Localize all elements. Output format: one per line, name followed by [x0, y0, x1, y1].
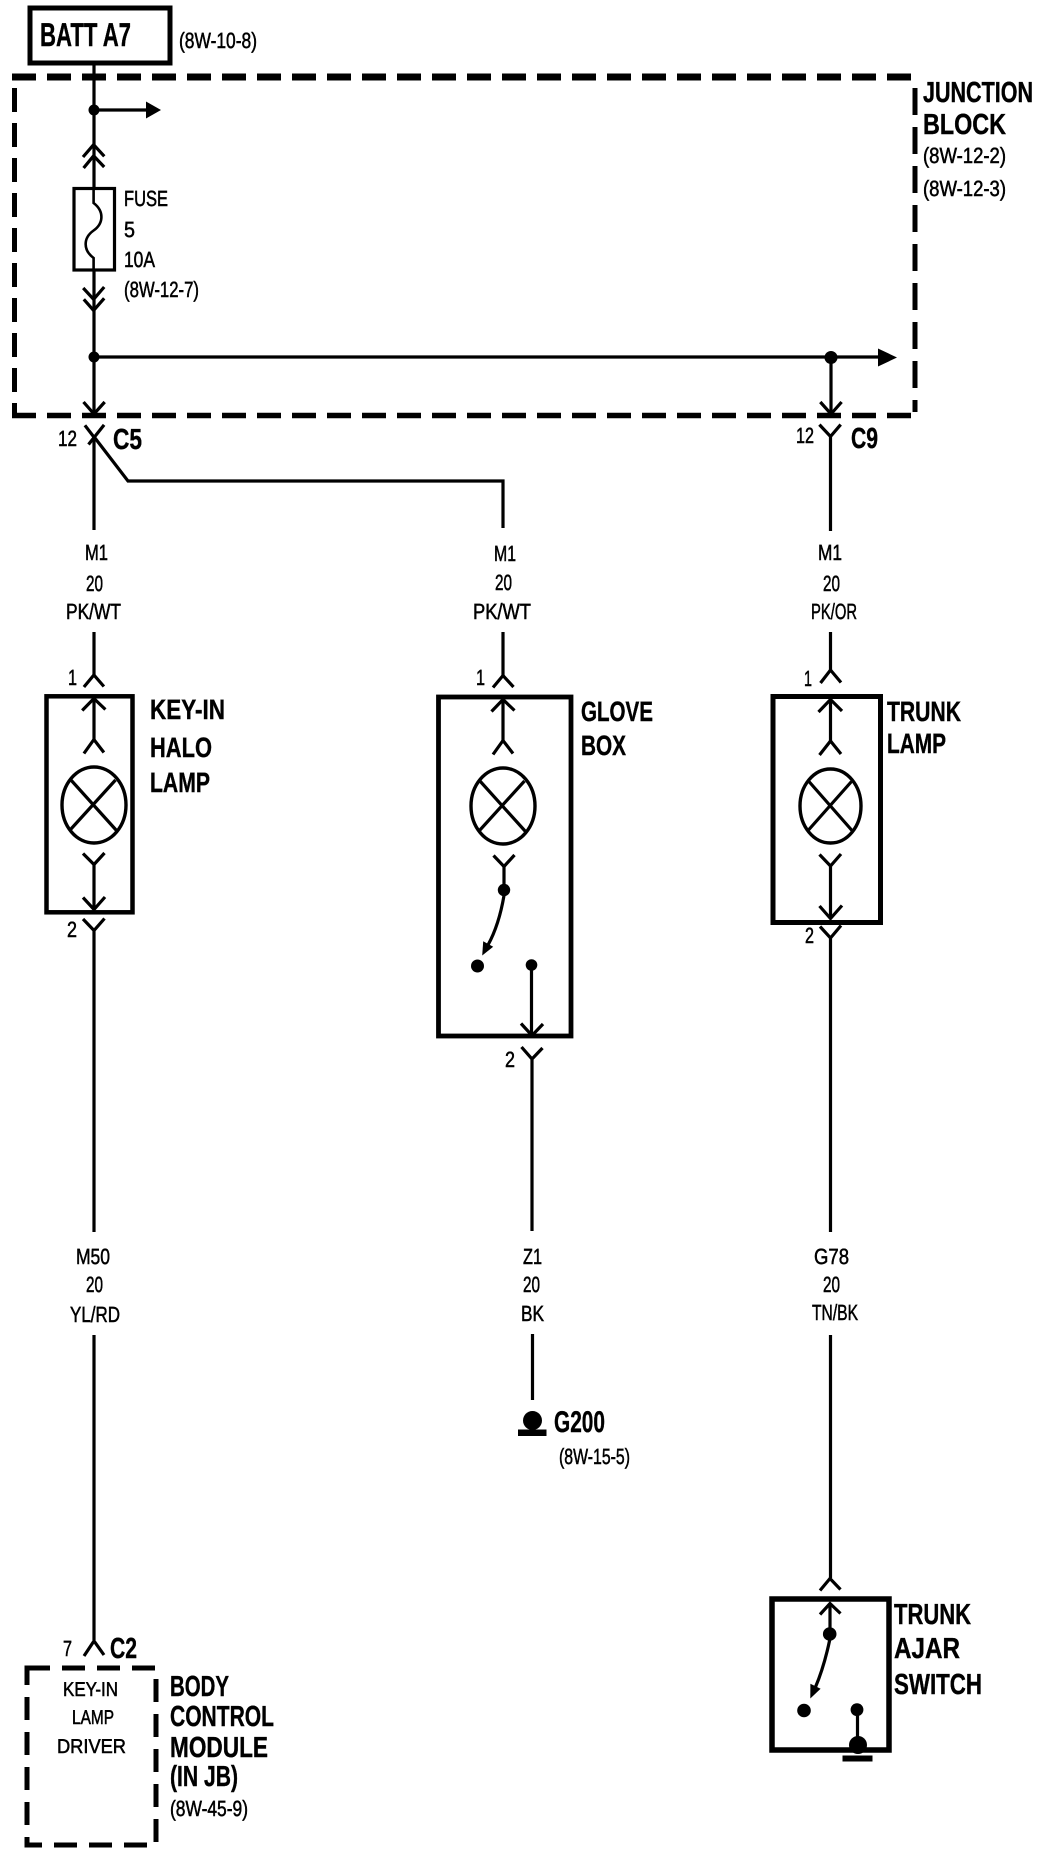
- trunk ajar switch box: [772, 1599, 889, 1750]
- svg-text:GLOVE: GLOVE: [581, 696, 653, 727]
- trunk switch lower-left contact: [797, 1704, 811, 1718]
- arrow into right border: [831, 355, 879, 358]
- pin 2 connector (left): [83, 919, 105, 951]
- wire to trunk lamp: [829, 632, 832, 670]
- junction node above fuse: [89, 105, 100, 116]
- svg-text:G78: G78: [814, 1244, 849, 1269]
- connector C2 symbol: [84, 1641, 104, 1656]
- svg-text:JUNCTION: JUNCTION: [923, 77, 1033, 109]
- svg-text:12: 12: [796, 423, 814, 448]
- svg-text:(8W-12-7): (8W-12-7): [124, 277, 199, 302]
- glove box outline: [439, 697, 572, 1036]
- glove box switch right contact: [526, 959, 538, 971]
- fuse 5 10A: [74, 189, 115, 271]
- svg-text:BLOCK: BLOCK: [923, 109, 1006, 141]
- svg-text:CONTROL: CONTROL: [170, 1701, 274, 1733]
- svg-text:10A: 10A: [124, 247, 155, 272]
- svg-text:HALO: HALO: [150, 732, 212, 763]
- svg-text:LAMP: LAMP: [887, 728, 946, 759]
- svg-text:7: 7: [63, 1636, 72, 1661]
- wire lamp to BCM: [92, 950, 95, 1232]
- wire C5 down (left column): [92, 440, 95, 530]
- svg-text:20: 20: [86, 571, 103, 596]
- svg-text:(8W-45-9): (8W-45-9): [170, 1796, 248, 1821]
- in-line connector above switch: [820, 1579, 841, 1591]
- trunk switch blade: [816, 1640, 830, 1687]
- svg-text:M50: M50: [76, 1244, 110, 1269]
- svg-text:20: 20: [495, 570, 512, 595]
- svg-text:C2: C2: [110, 1633, 137, 1665]
- lamp feed arrow (left): [82, 699, 105, 711]
- arrow tap to right (top): [94, 108, 147, 111]
- svg-text:20: 20: [823, 1272, 840, 1297]
- switch output wire with arrow: [530, 965, 533, 1034]
- connector C5 symbol: [85, 425, 104, 445]
- svg-text:PK/WT: PK/WT: [473, 599, 531, 624]
- wire below fuse: [92, 270, 95, 357]
- svg-text:PK/WT: PK/WT: [66, 599, 121, 624]
- wire down to G200: [531, 1334, 534, 1400]
- bulb return into switch: [494, 855, 515, 867]
- glove box switch common contact: [498, 884, 510, 896]
- wire trunk lamp to switch: [829, 955, 832, 1232]
- bulb trunk lamp: [800, 769, 861, 843]
- wire right contact to case ground: [856, 1710, 859, 1740]
- wire BATT A7 down to fuse: [92, 63, 95, 190]
- branch wire C5 to glove box column: [95, 438, 503, 528]
- pin 2 connector (right): [820, 926, 841, 956]
- wire to glove box: [501, 632, 504, 676]
- bulb key-in halo lamp: [62, 767, 126, 843]
- svg-text:20: 20: [523, 1272, 540, 1297]
- svg-text:5: 5: [124, 217, 135, 242]
- svg-text:KEY-IN: KEY-IN: [63, 1679, 118, 1701]
- connector chevrons above fuse: [83, 145, 104, 168]
- lamp feed arrow (glove): [492, 700, 515, 712]
- junction block dashed border: [12, 77, 917, 418]
- svg-text:SWITCH: SWITCH: [894, 1669, 982, 1701]
- svg-text:M1: M1: [818, 540, 842, 565]
- svg-text:Z1: Z1: [523, 1244, 542, 1269]
- svg-text:(8W-12-2): (8W-12-2): [923, 143, 1006, 168]
- svg-text:TRUNK: TRUNK: [894, 1599, 971, 1631]
- battery feed box BATT A7: [30, 8, 170, 63]
- svg-text:2: 2: [805, 923, 814, 948]
- svg-text:2: 2: [67, 917, 77, 942]
- svg-text:(8W-12-3): (8W-12-3): [923, 176, 1006, 201]
- svg-text:YL/RD: YL/RD: [70, 1302, 120, 1327]
- svg-text:LAMP: LAMP: [72, 1707, 114, 1729]
- bulb glove box lamp: [471, 768, 535, 844]
- svg-text:1: 1: [804, 666, 812, 691]
- svg-text:BODY: BODY: [170, 1671, 229, 1703]
- svg-text:FUSE: FUSE: [124, 186, 168, 211]
- svg-text:2: 2: [505, 1047, 515, 1072]
- svg-text:BK: BK: [521, 1301, 544, 1326]
- svg-text:(8W-15-5): (8W-15-5): [559, 1444, 630, 1469]
- body control module dashed box: [27, 1668, 156, 1845]
- svg-text:12: 12: [58, 426, 77, 451]
- junction node at C9 drop: [825, 351, 838, 364]
- svg-text:20: 20: [86, 1272, 103, 1297]
- trunk lamp box: [773, 697, 881, 923]
- wire down to trunk ajar switch: [829, 1335, 832, 1578]
- lamp return (trunk): [820, 854, 842, 866]
- lamp feed arrow (trunk): [819, 700, 843, 713]
- case ground bar: [843, 1756, 873, 1762]
- svg-text:(8W-10-8): (8W-10-8): [179, 28, 257, 53]
- pin 1 connector (right): [821, 670, 842, 683]
- wire glove box to ground: [530, 1076, 533, 1231]
- wire down to C2: [92, 1335, 95, 1640]
- svg-text:20: 20: [823, 571, 840, 596]
- pin 2 connector (middle): [522, 1047, 543, 1076]
- svg-text:BOX: BOX: [581, 730, 626, 761]
- connector chevrons below fuse: [83, 287, 104, 310]
- svg-text:BATT A7: BATT A7: [40, 16, 131, 53]
- svg-text:C9: C9: [851, 423, 878, 455]
- svg-text:AJAR: AJAR: [894, 1633, 960, 1665]
- connector C9 symbol: [819, 425, 840, 450]
- svg-text:C5: C5: [113, 424, 142, 456]
- svg-text:MODULE: MODULE: [170, 1732, 268, 1764]
- glove box switch blade: [488, 896, 504, 946]
- wire to key-in halo lamp: [92, 632, 95, 675]
- svg-text:KEY-IN: KEY-IN: [150, 694, 225, 725]
- bus wire to C9: [94, 355, 831, 358]
- ground G200 symbol: [523, 1411, 542, 1430]
- svg-text:TN/BK: TN/BK: [812, 1300, 858, 1325]
- wire C9 down (right column): [829, 450, 832, 531]
- junction node below fuse: [89, 352, 100, 363]
- svg-text:PK/OR: PK/OR: [811, 599, 857, 624]
- svg-text:TRUNK: TRUNK: [887, 696, 961, 727]
- pin 1 connector (middle): [493, 676, 514, 688]
- glove box switch lower-left contact: [471, 960, 484, 973]
- svg-text:M1: M1: [494, 541, 516, 566]
- svg-text:M1: M1: [85, 540, 108, 565]
- pin 1 connector (left): [84, 675, 104, 687]
- svg-text:LAMP: LAMP: [150, 767, 210, 798]
- case ground dot: [849, 1736, 867, 1754]
- trunk switch common contact: [823, 1627, 837, 1641]
- switch feed arrow: [820, 1604, 841, 1615]
- drop wire and arrow to C5: [92, 357, 95, 413]
- trunk switch right contact: [851, 1703, 864, 1716]
- key-in halo lamp box: [47, 696, 133, 912]
- svg-text:1: 1: [476, 665, 485, 690]
- svg-text:DRIVER: DRIVER: [57, 1736, 126, 1758]
- drop wire and arrow to C9: [829, 357, 832, 413]
- svg-text:G200: G200: [554, 1406, 605, 1439]
- lamp return (left): [83, 853, 105, 865]
- svg-text:(IN JB): (IN JB): [170, 1761, 238, 1793]
- svg-text:1: 1: [68, 665, 77, 690]
